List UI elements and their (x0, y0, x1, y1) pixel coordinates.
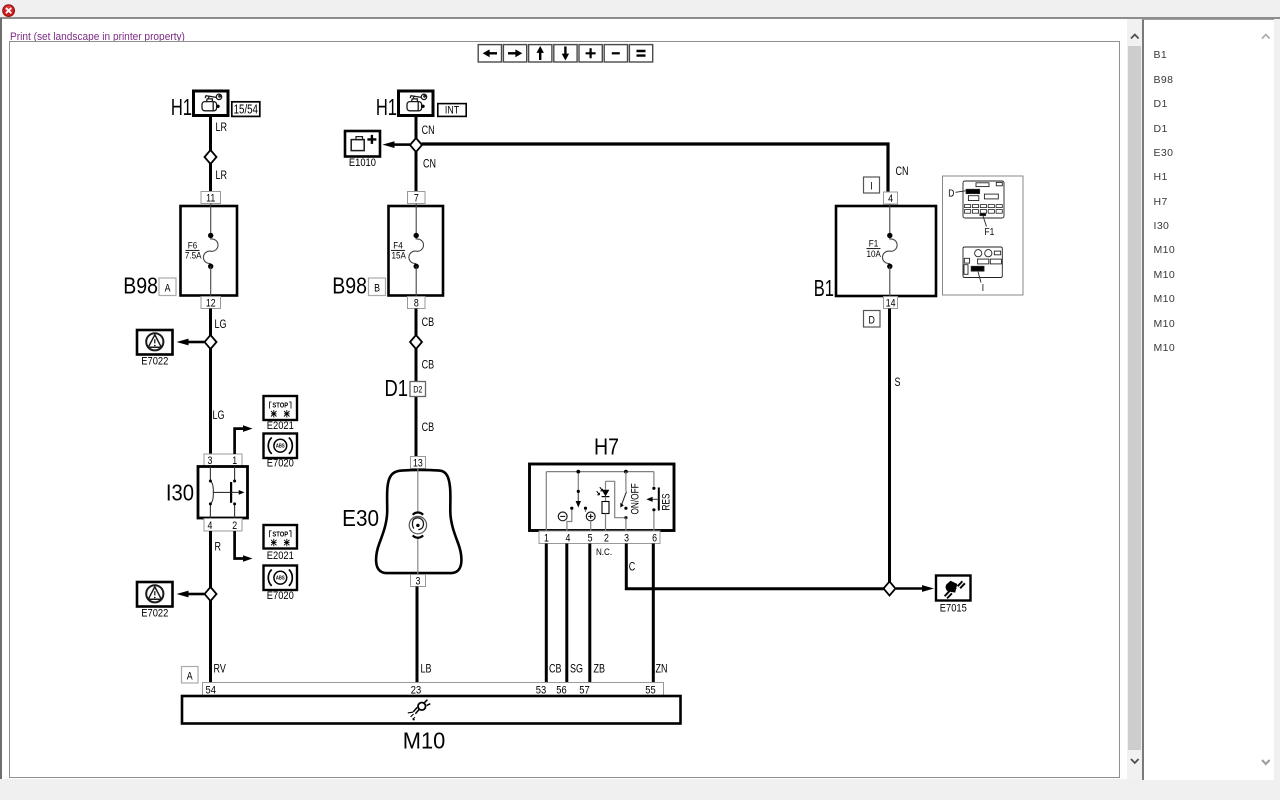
fuse F1 value (867, 238, 881, 259)
arrow to E2021/E7020 upper (243, 425, 253, 432)
connector tag A (bottom) (182, 667, 199, 684)
svg-text:E30: E30 (342, 505, 379, 531)
svg-text:6: 6 (652, 533, 657, 545)
svg-text:3: 3 (624, 533, 629, 545)
svg-text:12: 12 (206, 298, 216, 310)
ABS lamp E7020 lower (264, 566, 298, 591)
svg-text:B98: B98 (123, 273, 158, 299)
horn wire through bell (417, 469, 419, 575)
toolbar button minus (604, 45, 627, 62)
junction diamond to E7015 (884, 582, 896, 596)
wire H7 pin1 (545, 544, 548, 684)
svg-text:2: 2 (604, 533, 609, 545)
inset fusebox D pictogram (963, 181, 1004, 218)
toolbar button left (478, 45, 501, 62)
svg-text:14: 14 (886, 298, 896, 310)
inset fusebox I pictogram (963, 247, 1002, 278)
connector tag D (864, 311, 881, 328)
wire LG lower (209, 348, 212, 454)
wire LR lower (209, 163, 212, 192)
connector tag B (369, 278, 386, 296)
svg-text:4: 4 (888, 193, 893, 205)
wire CN upper (415, 116, 418, 140)
svg-text:A: A (165, 283, 171, 295)
svg-text:F4: F4 (393, 240, 403, 251)
arrow to E2021/E7020 lower (243, 555, 253, 562)
ABS lamp E7020 upper (264, 434, 298, 459)
toolbar button equals (629, 45, 652, 62)
fuse F6 element (203, 204, 218, 297)
arrow to E7015 (896, 585, 934, 592)
bottom pin row strip (203, 683, 664, 697)
connector tag A (159, 278, 176, 296)
svg-text:CN: CN (423, 157, 436, 171)
stop lamp E2021 lower (264, 525, 298, 549)
arrow to E1010 (383, 141, 411, 148)
inset label I with leader (978, 272, 984, 294)
diagram frame border (10, 42, 1120, 778)
pin 3 (horn) (411, 575, 426, 588)
splice diamond CB (410, 335, 422, 349)
svg-text:H1: H1 (171, 95, 192, 120)
main feed wire to B1 column (422, 144, 889, 192)
svg-text:SG: SG (570, 662, 583, 676)
svg-text:2: 2 (232, 520, 237, 532)
wire R (209, 531, 212, 588)
svg-text:7: 7 (414, 193, 419, 205)
svg-text:E2021: E2021 (267, 421, 294, 433)
stop lamp E2021 upper (264, 396, 298, 420)
junction diamond at E1010 tee (410, 138, 422, 152)
toolbar button up (529, 45, 552, 62)
svg-text:E7015: E7015 (940, 603, 967, 615)
svg-text:10A: 10A (867, 248, 881, 259)
svg-text:D2: D2 (413, 385, 423, 395)
wire from pin 1 up to stop lamps (235, 429, 244, 454)
pin 4 (B1) (884, 192, 898, 205)
H7 RES push button (646, 472, 659, 531)
svg-text:ZB: ZB (594, 662, 605, 676)
wire LB (416, 587, 419, 684)
svg-text:CN: CN (422, 124, 435, 138)
svg-text:ABS: ABS (276, 443, 285, 449)
connector tag I (864, 177, 880, 193)
svg-text:F1: F1 (869, 238, 879, 249)
svg-text:ABS: ABS (276, 575, 285, 581)
close button (2, 4, 16, 18)
horn lamp E7015 (936, 576, 971, 601)
battery positive E1010 (345, 131, 380, 157)
fuse F4 element (409, 204, 424, 297)
svg-text:I30: I30 (166, 479, 194, 506)
handbrake switch I30 (198, 467, 248, 519)
junction diamond to E7022 (205, 335, 217, 349)
svg-text:A: A (187, 670, 193, 682)
control unit H7 (530, 464, 675, 531)
svg-text:CB: CB (422, 358, 434, 372)
svg-text:S: S (895, 376, 901, 390)
pin 11 (201, 192, 221, 205)
brake warning lamp E7022 upper (137, 330, 173, 355)
wire S (888, 309, 891, 583)
toolbar button plus (579, 45, 602, 62)
H7 LED with resistor (597, 481, 624, 530)
toolbar button down (554, 45, 577, 62)
svg-text:7.5A: 7.5A (185, 250, 202, 261)
svg-text:I: I (982, 282, 984, 294)
pin 12 (201, 297, 221, 310)
svg-text:ON/OFF: ON/OFF (629, 483, 641, 514)
pin 7 (408, 192, 426, 205)
wire H7 pin6 ZN (652, 544, 655, 684)
svg-text:B1: B1 (814, 276, 834, 301)
svg-text:B: B (374, 283, 380, 295)
svg-text:15/54: 15/54 (234, 103, 258, 116)
H7 switch 1 with arrow (558, 470, 595, 531)
svg-text:D: D (869, 315, 875, 327)
svg-text:CB: CB (422, 421, 434, 435)
wire CB 1 (415, 309, 418, 337)
svg-text:4: 4 (207, 520, 212, 532)
toolbar button right (503, 45, 526, 62)
svg-text:R: R (215, 540, 222, 554)
svg-text:C: C (629, 560, 636, 574)
arrow to E7022 upper (177, 339, 205, 346)
svg-text:CN: CN (896, 165, 909, 179)
svg-text:N.C.: N.C. (596, 547, 612, 558)
svg-text:LB: LB (421, 662, 432, 676)
horn E30 bell body (376, 470, 461, 573)
svg-text:INT: INT (445, 105, 459, 117)
wire RV (209, 600, 212, 683)
svg-text:5: 5 (588, 533, 593, 545)
fusebox location inset panel (943, 176, 1024, 295)
svg-text:8: 8 (414, 298, 419, 310)
splice diamond (205, 150, 217, 164)
main scrollbar arrows (1128, 19, 1142, 779)
svg-text:I: I (870, 181, 872, 193)
inset label D with leader (948, 188, 965, 200)
svg-text:E7020: E7020 (267, 590, 294, 602)
svg-text:M10: M10 (403, 728, 445, 754)
svg-text:E7022: E7022 (141, 356, 168, 368)
body harness connector M10 (182, 696, 681, 724)
svg-text:3: 3 (415, 575, 420, 587)
svg-text:E7022: E7022 (141, 608, 168, 620)
arrow to E7022 lower (177, 591, 205, 598)
svg-text:STOP: STOP (272, 531, 288, 539)
wire CN lower (415, 151, 418, 192)
wire H7 pin4 (565, 544, 568, 684)
ignition switch H1 (middle) (399, 91, 434, 116)
svg-text:15A: 15A (392, 250, 406, 261)
wire H7 pin3 to E7015 run (626, 544, 883, 589)
fuse F4 value (391, 240, 406, 261)
wire LG upper (209, 309, 212, 337)
list scrollbar arrows (disabled) (1258, 19, 1274, 779)
fuse box B98/A (181, 206, 238, 296)
svg-text:H7: H7 (594, 434, 619, 460)
svg-text:CB: CB (549, 662, 561, 676)
svg-text:F6: F6 (188, 240, 198, 251)
svg-text:B98: B98 (332, 273, 367, 299)
wire LR upper (209, 116, 212, 152)
svg-text:13: 13 (413, 457, 423, 469)
wire CB 2 (415, 348, 418, 457)
svg-text:D1: D1 (384, 376, 408, 401)
I30 top pin strip (3,1) (204, 454, 242, 468)
I30 bottom pin strip (4,2) (204, 519, 242, 533)
terminal tag 15/54 (232, 102, 260, 117)
connector tag D2 (410, 382, 426, 397)
svg-text:ZN: ZN (656, 662, 668, 676)
svg-text:11: 11 (206, 193, 216, 205)
svg-text:D: D (948, 188, 954, 200)
fuse F1 element (882, 204, 897, 296)
fuse F6 value (185, 240, 202, 261)
svg-text:LR: LR (216, 121, 228, 135)
svg-text:4: 4 (565, 533, 570, 545)
junction diamond to E7022 lower (205, 587, 217, 601)
svg-text:H1: H1 (376, 95, 397, 120)
fuse box B98/B (389, 206, 444, 296)
svg-text:F1: F1 (985, 226, 995, 238)
pin 14 (884, 297, 898, 310)
horn symbol in bell (409, 512, 426, 537)
svg-text:E1010: E1010 (349, 158, 376, 170)
pin 13 (411, 457, 426, 470)
H7 switch 2 (pin3) (620, 470, 628, 531)
pin 8 (408, 297, 426, 310)
H7 internal bus line (546, 472, 654, 531)
svg-text:RES: RES (660, 493, 672, 510)
brake warning lamp E7022 lower (137, 582, 173, 607)
svg-text:LG: LG (213, 409, 225, 423)
svg-text:E2021: E2021 (267, 551, 294, 563)
wire from pin 2 down to stop lamps (235, 531, 244, 559)
fuse box B1 (836, 206, 936, 296)
svg-text:CB: CB (422, 316, 434, 330)
svg-text:LG: LG (215, 318, 227, 332)
H7 pin strip (539, 531, 660, 545)
inset label F1 with leader (983, 216, 994, 238)
terminal tag INT (438, 104, 466, 117)
svg-text:LR: LR (216, 169, 228, 183)
ignition switch H1 (left) (194, 91, 229, 116)
wire H7 pin5 (588, 544, 591, 684)
svg-text:E7020: E7020 (267, 458, 294, 470)
svg-text:STOP: STOP (272, 402, 288, 410)
svg-text:RV: RV (214, 662, 227, 676)
svg-text:1: 1 (544, 533, 549, 545)
